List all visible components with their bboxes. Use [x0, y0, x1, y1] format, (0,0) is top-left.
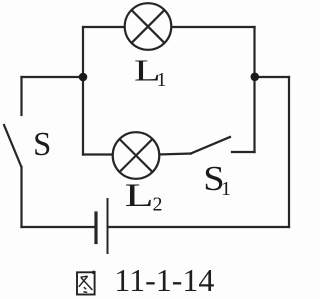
wire left riser to L1 branch: [82, 27, 84, 77]
wire right outer vertical: [288, 77, 290, 227]
wire L2 right lead: [158, 154, 191, 155]
wire right riser to S1: [253, 77, 255, 152]
battery positive long plate: [107, 199, 109, 253]
svg-text:S: S: [33, 126, 51, 164]
svg-text:2: 2: [153, 194, 163, 216]
wire top rail: [83, 26, 255, 28]
wire node B horizontal: [255, 76, 290, 78]
label L2: [125, 177, 163, 215]
wire left column upper: [20, 77, 22, 115]
label L1: [134, 54, 167, 91]
node A junction dot: [79, 73, 88, 82]
label S1: [203, 159, 231, 200]
node B junction dot: [251, 73, 260, 82]
svg-text:1: 1: [221, 178, 231, 200]
wire middle-left horizontal: [22, 76, 84, 78]
svg-text:1: 1: [157, 69, 167, 91]
wire bottom-right rail: [108, 226, 289, 228]
svg-text:11-1-14: 11-1-14: [114, 262, 214, 298]
svg-text:L: L: [125, 177, 154, 213]
lamp L2: [113, 132, 160, 179]
wire left column lower: [20, 167, 22, 227]
wire L2 left lead: [83, 153, 114, 155]
battery negative short plate: [94, 213, 97, 243]
wire bottom-left rail: [22, 226, 96, 228]
lamp L1: [125, 3, 172, 50]
caption glyph 图: [77, 271, 96, 295]
wire L2 branch vertical: [82, 77, 84, 155]
switch S1 blade: [191, 137, 230, 154]
wire S1 fixed contact: [232, 151, 255, 153]
switch S blade: [4, 125, 21, 166]
wire right riser top: [253, 27, 255, 77]
